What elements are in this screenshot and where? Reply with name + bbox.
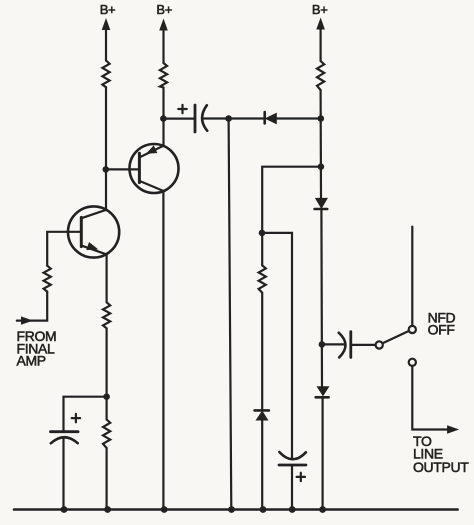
B+ arrow (left) — [105, 29, 107, 61]
switch S1 blade — [383, 331, 409, 343]
wire — [105, 448, 107, 510]
wire C2 to switch — [351, 344, 376, 346]
ground rail — [14, 508, 458, 511]
diode D4 (points down) — [316, 387, 329, 397]
wire D1 right — [276, 117, 321, 119]
plus sign C1 — [178, 105, 186, 113]
wire V4 (node D down to rail) — [229, 119, 232, 510]
wire upper contact riser — [411, 227, 413, 326]
resistor R7 — [259, 265, 266, 293]
wire — [17, 292, 47, 321]
switch S1 lower contact — [409, 359, 416, 366]
wire to C2 — [322, 343, 344, 345]
wire output — [412, 366, 449, 430]
diode D1 (points left) — [265, 112, 277, 123]
diode D3 (points up) — [255, 410, 269, 420]
node H (C2 tap) — [319, 341, 326, 348]
switch S1 common contact — [376, 341, 383, 348]
node C (C3 tap) — [103, 393, 110, 400]
wire to C3 — [64, 397, 107, 432]
B+ arrow (middle) — [162, 29, 164, 63]
wire C1 left — [163, 117, 195, 119]
wire input riser — [46, 232, 48, 266]
plus sign C3 — [72, 414, 80, 422]
resistor R6 — [103, 420, 110, 449]
input arrow — [22, 317, 32, 324]
output arrow — [448, 426, 458, 433]
wire Q2 emitter down — [105, 254, 107, 302]
capacitor C3 (electrolytic) — [51, 432, 79, 444]
wire H3 jog — [262, 233, 292, 459]
capacitor C4 (electrolytic) — [279, 452, 306, 465]
resistor R1 — [102, 61, 109, 88]
wire — [105, 328, 107, 419]
wire — [261, 420, 263, 510]
wire C3 down — [62, 438, 64, 510]
node F — [318, 163, 325, 170]
wire — [105, 87, 107, 210]
transistor Q2 (NPN) — [68, 206, 119, 257]
node B (C1 tap) — [160, 115, 167, 122]
svg-text:B+: B+ — [156, 2, 172, 17]
node E — [318, 115, 325, 122]
wire — [320, 90, 323, 199]
resistor R3 — [317, 61, 324, 90]
label NFD OFF — [428, 310, 456, 338]
wire C1 right — [203, 117, 265, 119]
wire — [261, 293, 263, 411]
label FROM FINAL AMP — [17, 328, 57, 368]
capacitor C2 — [339, 332, 351, 358]
resistor R5 — [103, 302, 110, 328]
node D — [225, 115, 232, 122]
svg-text:B+: B+ — [100, 2, 116, 17]
svg-text:OFF: OFF — [428, 322, 455, 338]
label TO LINE OUTPUT — [413, 433, 469, 475]
wire Q1 collector down — [162, 191, 164, 510]
transistor Q1 (PNP) — [130, 144, 179, 193]
B+ arrow (right) — [320, 28, 322, 61]
wire H2 — [262, 167, 321, 266]
node G — [259, 230, 266, 237]
wire — [162, 88, 164, 146]
node A (Q1 base / divider) — [103, 166, 110, 173]
diode D2 (points down) — [315, 199, 328, 210]
wire — [106, 168, 140, 170]
svg-text:B+: B+ — [312, 2, 328, 17]
resistor R2 — [160, 63, 167, 88]
svg-text:OUTPUT: OUTPUT — [413, 459, 469, 475]
rail junction dots — [61, 506, 326, 513]
wire — [320, 209, 323, 387]
wire C4 down — [291, 465, 293, 510]
capacitor C1 (coupling) — [195, 105, 207, 132]
switch S1 upper contact — [409, 326, 416, 333]
resistor R4 — [44, 266, 51, 292]
wire — [322, 397, 324, 509]
plus sign C4 — [297, 473, 305, 481]
wire Q2 base — [47, 231, 81, 233]
svg-text:AMP: AMP — [17, 353, 46, 369]
